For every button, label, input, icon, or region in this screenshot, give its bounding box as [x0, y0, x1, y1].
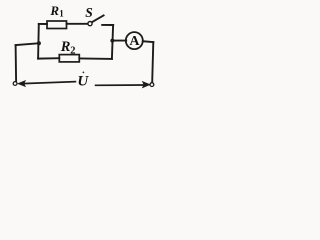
svg-text:U: U — [77, 74, 89, 90]
svg-text:1: 1 — [59, 9, 64, 19]
svg-text:R: R — [49, 3, 59, 18]
svg-text:S: S — [85, 5, 93, 20]
svg-text:A: A — [129, 34, 140, 49]
svg-text:R: R — [60, 39, 71, 55]
svg-text:2: 2 — [70, 46, 75, 57]
